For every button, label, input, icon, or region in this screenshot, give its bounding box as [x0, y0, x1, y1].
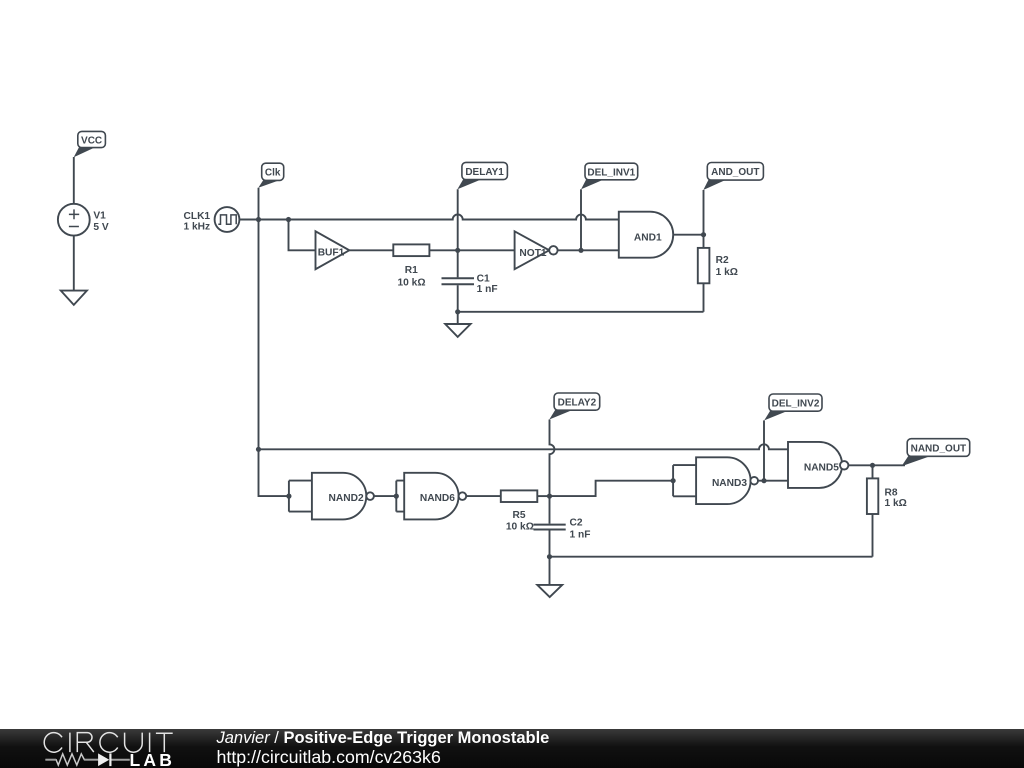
svg-text:R1: R1 [405, 265, 418, 276]
svg-text:V1: V1 [93, 211, 106, 222]
svg-text:R5: R5 [512, 510, 525, 521]
svg-text:BUF1: BUF1 [318, 248, 345, 259]
svg-text:Janvier / Positive-Edge Trigge: Janvier / Positive-Edge Trigger Monostab… [216, 729, 550, 747]
svg-text:1 nF: 1 nF [570, 529, 591, 540]
svg-text:NAND2: NAND2 [329, 493, 364, 504]
svg-text:Clk: Clk [265, 168, 281, 179]
svg-text:NAND5: NAND5 [804, 462, 839, 473]
svg-text:NOT1: NOT1 [519, 248, 547, 259]
svg-text:5 V: 5 V [93, 222, 108, 233]
svg-text:LAB: LAB [130, 750, 176, 768]
svg-text:C1: C1 [477, 273, 490, 284]
svg-text:C2: C2 [570, 517, 583, 528]
svg-text:10 kΩ: 10 kΩ [506, 521, 534, 532]
svg-text:10 kΩ: 10 kΩ [398, 277, 426, 288]
svg-text:NAND6: NAND6 [420, 493, 455, 504]
svg-text:DEL_INV2: DEL_INV2 [772, 398, 820, 409]
svg-text:NAND3: NAND3 [712, 478, 747, 489]
svg-text:AND_OUT: AND_OUT [711, 167, 759, 178]
svg-text:1 kHz: 1 kHz [184, 222, 211, 233]
svg-text:1 nF: 1 nF [477, 284, 498, 295]
svg-text:R8: R8 [885, 487, 898, 498]
svg-text:AND1: AND1 [634, 232, 662, 243]
svg-text:R2: R2 [716, 255, 729, 266]
svg-text:DELAY2: DELAY2 [558, 397, 597, 408]
svg-text:NAND_OUT: NAND_OUT [911, 443, 967, 454]
svg-text:1 kΩ: 1 kΩ [885, 498, 907, 509]
svg-text:DEL_INV1: DEL_INV1 [587, 167, 635, 178]
svg-text:CLK1: CLK1 [184, 211, 211, 222]
svg-text:DELAY1: DELAY1 [465, 167, 504, 178]
svg-text:VCC: VCC [81, 135, 102, 146]
svg-text:1 kΩ: 1 kΩ [716, 267, 738, 278]
svg-text:http://circuitlab.com/cv263k6: http://circuitlab.com/cv263k6 [217, 747, 441, 767]
